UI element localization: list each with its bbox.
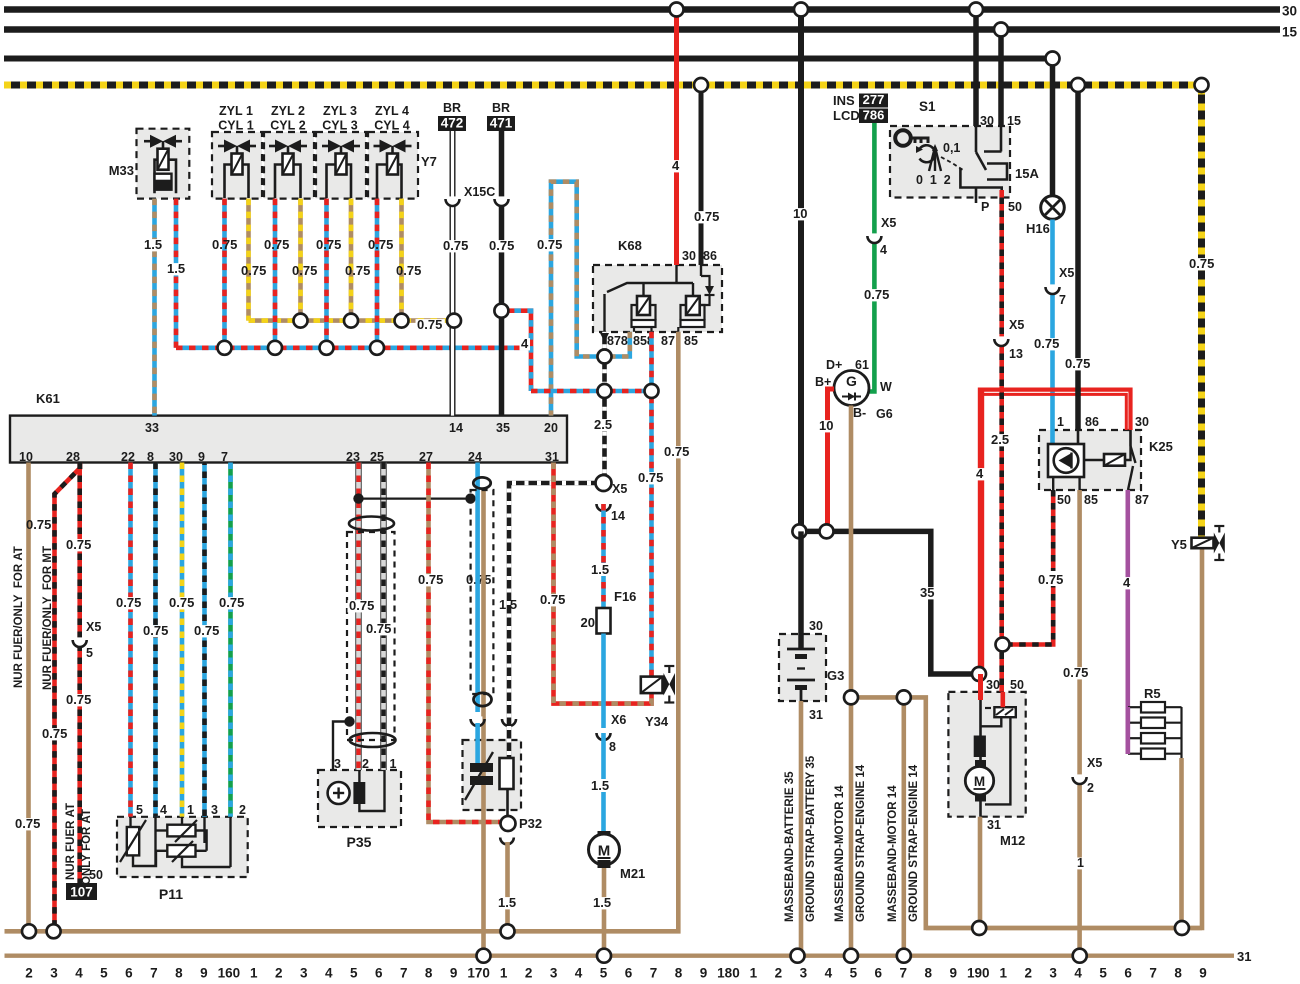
injector feed bus (blue/red) <box>176 345 531 350</box>
wire injector1 left (blue/red 0.75) <box>222 199 227 348</box>
wire blue 1.5 to M21 <box>601 733 606 834</box>
svg-text:6: 6 <box>375 966 383 980</box>
svg-text:6: 6 <box>625 966 633 980</box>
red feed line A to K25 pin30 <box>981 390 1131 430</box>
svg-text:0.75: 0.75 <box>42 726 67 741</box>
svg-text:87: 87 <box>1135 493 1149 507</box>
svg-text:BR: BR <box>492 101 510 115</box>
svg-text:0.75: 0.75 <box>1063 665 1088 680</box>
wire injector2 left (blue/red 0.75) <box>273 199 278 348</box>
injector Y7 cyl2 box <box>264 132 314 199</box>
svg-text:9: 9 <box>700 966 708 980</box>
bus line 30a yellow/black <box>4 85 1202 538</box>
label 0.75 pin31 <box>539 594 568 606</box>
svg-text:MASSEBAND-BATTERIE 35: MASSEBAND-BATTERIE 35 <box>784 771 796 922</box>
junction circle injector return bus on wire 472 <box>447 314 461 328</box>
svg-text:M33: M33 <box>109 163 134 178</box>
label 4 on red K68 wire <box>671 160 682 172</box>
connector X6 <box>599 730 609 739</box>
idle actuator M33 box <box>137 129 190 199</box>
svg-text:9: 9 <box>950 966 958 980</box>
upper ground bus (left) <box>5 929 679 933</box>
wire K25 pin87 (purple 4) to R5 <box>1126 490 1131 754</box>
label 0.75 on pin24 wire <box>465 574 494 586</box>
svg-text:0.75: 0.75 <box>143 623 168 638</box>
relay K25 box <box>1039 430 1141 490</box>
label 0.75 wire 471 <box>488 240 517 252</box>
svg-text:8: 8 <box>675 966 683 980</box>
svg-text:4: 4 <box>1074 966 1082 980</box>
svg-text:8: 8 <box>609 740 616 754</box>
wire K61 pin27 (brown/red 0.75) to P32 <box>429 463 501 823</box>
svg-text:3: 3 <box>550 966 558 980</box>
svg-text:G6: G6 <box>876 407 893 421</box>
wire K61 pin22 (blue/red) to P11 pin5 <box>128 463 133 817</box>
connector arcs below shield <box>473 716 483 725</box>
svg-text:33: 33 <box>145 421 159 435</box>
svg-text:LCD: LCD <box>833 108 860 123</box>
fuse F16 <box>597 608 611 634</box>
svg-text:0.75: 0.75 <box>15 816 40 831</box>
svg-text:X15C: X15C <box>464 185 495 199</box>
svg-text:0.75: 0.75 <box>540 592 565 607</box>
junction circle at M12 pin30 <box>972 667 986 681</box>
wire injector4 right (brown/yellow 0.75) <box>399 199 404 321</box>
connector X5-2 <box>1075 774 1085 783</box>
svg-text:7: 7 <box>1149 966 1157 980</box>
svg-text:1.5: 1.5 <box>591 778 609 793</box>
wire injector3 left (blue/red 0.75) <box>324 199 329 348</box>
injector return bus (brown/yellow) <box>249 318 455 323</box>
svg-text:1.5: 1.5 <box>167 261 185 276</box>
svg-text:7: 7 <box>650 966 658 980</box>
M33 symbol <box>150 135 163 148</box>
wire blue/red 1.5 to fuse F16 <box>601 504 606 608</box>
svg-text:0.75: 0.75 <box>1189 256 1214 271</box>
svg-text:0.75: 0.75 <box>368 237 393 252</box>
svg-text:3: 3 <box>300 966 308 980</box>
junction circles on top buses <box>670 3 684 17</box>
svg-text:2: 2 <box>239 803 246 817</box>
svg-text:0.75: 0.75 <box>316 237 341 252</box>
svg-text:R5: R5 <box>1144 686 1161 701</box>
wire K25 pin50 (red/black) joins starter wire <box>1010 490 1054 645</box>
ignition module internals <box>470 763 493 772</box>
svg-text:27: 27 <box>419 450 433 464</box>
svg-text:CYL 4: CYL 4 <box>374 119 409 133</box>
label 1.5 M33 left <box>143 239 165 251</box>
wire K61 pin31 (red/brown) to Y34 <box>554 463 652 704</box>
svg-text:Y34: Y34 <box>645 714 669 729</box>
wire K68 pin85 (brown) to ground bus <box>5 332 679 932</box>
shield ellipse top <box>349 517 394 531</box>
wire K68 pin87 (blue/red) down to Y34 <box>649 332 654 677</box>
svg-text:0.75: 0.75 <box>638 470 663 485</box>
Y7 injector 1 symbol <box>224 140 237 153</box>
wire 472 (white) to K61 pin 14 <box>450 131 456 416</box>
label 10 red <box>818 420 836 432</box>
svg-text:471: 471 <box>490 116 513 131</box>
ignition module box at P32 <box>463 740 522 810</box>
label 0.75 pin20 wire <box>536 239 565 251</box>
svg-text:30: 30 <box>169 450 183 464</box>
svg-text:G3: G3 <box>827 668 844 683</box>
svg-text:ZYL 2: ZYL 2 <box>271 104 305 118</box>
svg-text:H16: H16 <box>1026 221 1050 236</box>
label 35 <box>919 587 937 599</box>
label 1.5 <box>497 897 519 909</box>
junction circles upper left bus <box>22 924 36 938</box>
relay K68 box <box>593 265 722 332</box>
upper ground bus (right) <box>926 926 1202 930</box>
bus line 15 <box>4 26 1280 33</box>
svg-text:14: 14 <box>449 421 463 435</box>
svg-text:K68: K68 <box>618 238 642 253</box>
svg-text:0.75: 0.75 <box>212 237 237 252</box>
terminator box 107 <box>66 883 97 900</box>
svg-text:85: 85 <box>1084 493 1098 507</box>
svg-text:2: 2 <box>525 966 533 980</box>
svg-text:GROUND STRAP-ENGINE 14: GROUND STRAP-ENGINE 14 <box>908 764 920 922</box>
relay output bus (blue/red) <box>531 389 652 394</box>
svg-text:472: 472 <box>441 116 464 131</box>
label 0.75 <box>1062 667 1091 679</box>
svg-text:786: 786 <box>863 108 885 123</box>
S1 internals <box>895 130 911 146</box>
wire 471 (black 0.75) to K61 pin 35 <box>499 131 505 416</box>
wire K61 pin8 (blue/black) to P11 pin4 <box>153 463 158 817</box>
svg-text:2.5: 2.5 <box>594 417 612 432</box>
wire busX to H16 <box>1050 59 1056 197</box>
svg-text:K25: K25 <box>1149 439 1173 454</box>
svg-text:1: 1 <box>1057 415 1064 429</box>
battery G3 box <box>779 634 826 701</box>
svg-text:31: 31 <box>545 450 559 464</box>
svg-text:4: 4 <box>325 966 333 980</box>
svg-text:30: 30 <box>682 249 696 263</box>
svg-text:15A: 15A <box>1015 166 1039 181</box>
svg-text:878: 878 <box>607 334 628 348</box>
wire K68 pin858 (blue/brown 0.75) to K61 pin20 <box>551 182 630 416</box>
wire K61 pin28 branch AT (red/black) to ground bus <box>55 463 81 932</box>
wire black 10 from bus30 down <box>798 10 804 532</box>
svg-text:25: 25 <box>370 450 384 464</box>
svg-text:4: 4 <box>575 966 583 980</box>
wire K61 pin24 (blue) shielded to ignition module <box>475 463 480 713</box>
wire K61 pin30 (blue/yellow) to P11 pin1 <box>180 463 185 817</box>
svg-text:X5: X5 <box>881 216 896 230</box>
svg-text:CYL 3: CYL 3 <box>322 119 357 133</box>
wire black/white 1.5 from X5 node to ignition module <box>509 483 604 758</box>
svg-text:24: 24 <box>468 450 482 464</box>
svg-text:0.75: 0.75 <box>664 444 689 459</box>
wire black to battery <box>798 531 804 649</box>
svg-text:0.75: 0.75 <box>116 595 141 610</box>
svg-text:6: 6 <box>875 966 883 980</box>
starter M12 box <box>948 692 1025 817</box>
svg-text:0.75: 0.75 <box>366 621 391 636</box>
svg-text:30: 30 <box>1282 4 1297 19</box>
ignition switch S1 box <box>890 126 1010 198</box>
valve Y5 <box>1192 538 1214 549</box>
label 0.75 green <box>863 289 892 301</box>
svg-text:8: 8 <box>425 966 433 980</box>
svg-text:1: 1 <box>1077 856 1084 870</box>
svg-text:7: 7 <box>900 966 908 980</box>
svg-text:INS: INS <box>833 93 855 108</box>
svg-text:4: 4 <box>1123 575 1131 590</box>
svg-text:1: 1 <box>187 803 194 817</box>
label 0.75 pin27 <box>417 574 446 586</box>
svg-text:X6: X6 <box>611 713 626 727</box>
svg-text:1: 1 <box>250 966 258 980</box>
svg-text:0.75: 0.75 <box>66 537 91 552</box>
label 0.75 on K68 86 wire <box>693 211 722 223</box>
shield ellipse bottom <box>350 733 396 747</box>
svg-text:7: 7 <box>1059 293 1066 307</box>
injector Y7 cyl1 box <box>212 132 262 199</box>
svg-text:Y5: Y5 <box>1171 537 1187 552</box>
wire M21 brown 1.5 to ground bus <box>602 868 607 956</box>
wire yellow bus to K68 pin86 (black 0.75) <box>699 85 704 265</box>
svg-text:0.75: 0.75 <box>1038 572 1063 587</box>
svg-text:7: 7 <box>221 450 228 464</box>
purple feed bus of R5 <box>1126 707 1131 754</box>
label 0.75 <box>1064 358 1093 370</box>
svg-text:1: 1 <box>999 966 1007 980</box>
svg-text:X5: X5 <box>1087 756 1102 770</box>
label 0.75 <box>41 728 70 740</box>
injector Y7 cyl3 box <box>316 132 366 199</box>
svg-text:X5: X5 <box>86 620 101 634</box>
svg-text:10: 10 <box>793 206 807 221</box>
svg-text:4: 4 <box>521 336 529 351</box>
svg-text:0.75: 0.75 <box>219 595 244 610</box>
red feed line B <box>983 394 1126 430</box>
label 0.75 pin24 wire (left) <box>416 319 445 331</box>
svg-text:M12: M12 <box>1000 833 1025 848</box>
sensor P11 box <box>117 817 248 877</box>
svg-text:5: 5 <box>850 966 858 980</box>
svg-text:50: 50 <box>1057 493 1071 507</box>
labels 0.75 row for P11 wires <box>115 597 144 609</box>
wire blue 0.75 H16 to K25 pin1 <box>1050 220 1055 431</box>
wire bus15 to S1 pin15 <box>998 30 1004 127</box>
svg-text:P11: P11 <box>159 886 183 902</box>
svg-text:190: 190 <box>967 966 990 980</box>
svg-text:0.75: 0.75 <box>418 572 443 587</box>
svg-text:0 1 2: 0 1 2 <box>916 173 951 187</box>
svg-text:4: 4 <box>75 966 83 980</box>
svg-text:ZYL 1: ZYL 1 <box>219 104 253 118</box>
bus line X <box>4 56 1053 62</box>
junction circles K68 lower wires <box>598 350 612 364</box>
svg-text:B-: B- <box>853 406 866 420</box>
wire K61 pin7 (green/blue) to P11 pin2 <box>228 463 233 817</box>
valve Y34 <box>641 677 663 694</box>
wire B+ red 10 down <box>828 389 835 531</box>
svg-text:BR: BR <box>443 101 461 115</box>
label 0.75 on 87 wire <box>637 472 666 484</box>
control unit K61 box <box>10 416 567 463</box>
svg-text:86: 86 <box>1085 415 1099 429</box>
wire K61 pin25 (gray/black shielded) to P35 <box>381 463 386 771</box>
svg-text:0.75: 0.75 <box>264 237 289 252</box>
Y7 injector 4 symbol <box>380 140 393 153</box>
label 0.75 <box>1037 571 1067 586</box>
shield ferrule bottom <box>474 693 492 706</box>
svg-text:M21: M21 <box>620 866 645 881</box>
svg-text:2: 2 <box>275 966 283 980</box>
wire red to M12 pin30 <box>978 674 983 700</box>
wire brown to ground bus via engine strap <box>901 697 906 955</box>
wire G B- (brown) down <box>849 406 854 698</box>
wire injector4 left (blue/red 0.75) <box>375 199 380 348</box>
svg-text:20: 20 <box>544 421 558 435</box>
svg-text:MASSEBAND-MOTOR 14: MASSEBAND-MOTOR 14 <box>887 785 899 922</box>
svg-text:10: 10 <box>819 418 833 433</box>
P32 connector circle <box>501 816 516 831</box>
svg-text:86: 86 <box>703 249 717 263</box>
Y7 injector 3 symbol <box>328 140 341 153</box>
svg-text:10: 10 <box>19 450 33 464</box>
brown distribution: B- to engine ground straps <box>851 548 1202 928</box>
svg-text:30: 30 <box>1135 415 1149 429</box>
svg-text:7: 7 <box>150 966 158 980</box>
svg-text:5: 5 <box>350 966 358 980</box>
svg-text:1: 1 <box>750 966 758 980</box>
svg-text:0.75: 0.75 <box>864 287 889 302</box>
svg-text:9: 9 <box>450 966 458 980</box>
svg-text:23: 23 <box>346 450 360 464</box>
svg-text:X5: X5 <box>612 482 627 496</box>
svg-text:W: W <box>880 380 892 394</box>
wire G B- strap to ground bus <box>849 697 854 955</box>
svg-text:31: 31 <box>809 708 823 722</box>
wire injector3 right (brown/yellow 0.75) <box>349 199 354 321</box>
svg-text:S1: S1 <box>919 99 936 114</box>
svg-text:2: 2 <box>775 966 783 980</box>
svg-text:1.5: 1.5 <box>498 895 516 910</box>
svg-text:180: 180 <box>717 966 740 980</box>
svg-text:P35: P35 <box>347 834 372 850</box>
svg-text:277: 277 <box>863 92 885 107</box>
svg-text:D+: D+ <box>826 358 842 372</box>
junction circles main ground bus <box>477 949 491 963</box>
svg-text:F16: F16 <box>614 589 636 604</box>
svg-text:9: 9 <box>1199 966 1207 980</box>
label 1 <box>1076 858 1086 870</box>
svg-text:0.75: 0.75 <box>537 237 562 252</box>
svg-text:4: 4 <box>976 466 984 481</box>
svg-text:CYL 1: CYL 1 <box>218 119 253 133</box>
alternator G circle <box>834 371 869 406</box>
svg-text:35: 35 <box>920 585 934 600</box>
wire red/blue 4 from BR471 junction to relay bus <box>501 311 531 391</box>
lamp H16 <box>1041 196 1065 220</box>
connector X5-4 green <box>870 233 880 242</box>
Y7 injector 2 symbol <box>275 140 288 153</box>
wire K61 pin23 (gray/red shielded) to P35 <box>356 463 361 771</box>
sensor P35 box <box>318 770 401 827</box>
svg-text:0.75: 0.75 <box>169 595 194 610</box>
shield link line with solder dots <box>359 498 471 500</box>
K25 internals <box>1050 430 1055 444</box>
M12 internals <box>979 700 982 736</box>
junctions on injector feed bus <box>218 341 232 355</box>
svg-text:2: 2 <box>1087 781 1094 795</box>
svg-text:5: 5 <box>600 966 608 980</box>
svg-text:5: 5 <box>86 646 93 660</box>
label 2.5 <box>593 419 615 431</box>
wire bus30 to S1 pin30 <box>973 10 979 127</box>
main ground bus 31 <box>5 954 1235 958</box>
svg-text:28: 28 <box>66 450 80 464</box>
svg-text:0.75: 0.75 <box>694 209 719 224</box>
labels 0.75 on shielded wires 23/25 <box>348 600 377 612</box>
label 1.5 <box>589 779 615 792</box>
svg-text:P32: P32 <box>519 816 542 831</box>
svg-text:7: 7 <box>400 966 408 980</box>
battery G3 symbol <box>787 648 815 651</box>
junctions on injector return bus <box>294 314 308 328</box>
svg-text:8: 8 <box>175 966 183 980</box>
svg-text:4: 4 <box>160 803 167 817</box>
blue lead into ignition module <box>475 723 480 763</box>
svg-text:1.5: 1.5 <box>499 597 517 612</box>
svg-text:CYL 2: CYL 2 <box>270 119 305 133</box>
wire S1 pin50 (red/black 2.5) to M12 pin50 <box>999 198 1004 692</box>
svg-text:1.5: 1.5 <box>591 562 609 577</box>
svg-text:8: 8 <box>1174 966 1182 980</box>
connector X5-5 arc <box>75 637 85 646</box>
svg-text:2: 2 <box>1024 966 1032 980</box>
svg-text:107: 107 <box>70 885 93 900</box>
junction circle on starter wire <box>996 638 1010 652</box>
svg-text:5: 5 <box>136 803 143 817</box>
connector X5 node circle <box>596 475 612 491</box>
label 2.5 <box>990 434 1012 446</box>
svg-text:M: M <box>598 843 611 860</box>
svg-text:1: 1 <box>390 757 397 771</box>
svg-text:2: 2 <box>362 757 369 771</box>
svg-text:50: 50 <box>1010 678 1024 692</box>
label 4 <box>520 338 531 350</box>
svg-text:5: 5 <box>1099 966 1107 980</box>
svg-text:0,1: 0,1 <box>943 141 960 155</box>
svg-text:GROUND STRAP-BATTERY 35: GROUND STRAP-BATTERY 35 <box>805 755 817 922</box>
bus line 30 <box>4 6 1280 13</box>
svg-text:35: 35 <box>496 421 510 435</box>
svg-text:6: 6 <box>1124 966 1132 980</box>
svg-text:0.75: 0.75 <box>396 263 421 278</box>
svg-text:0.75: 0.75 <box>417 317 442 332</box>
svg-text:13: 13 <box>1009 347 1023 361</box>
junction circles on link <box>792 524 806 538</box>
black link wire 35 to starter <box>799 531 979 674</box>
svg-text:0.75: 0.75 <box>489 238 514 253</box>
P11 internals <box>127 827 139 855</box>
P35 internals <box>328 782 350 804</box>
svg-text:3: 3 <box>211 803 218 817</box>
wire injector1 right (brown/yellow 0.75) <box>246 199 251 321</box>
svg-text:3: 3 <box>334 757 341 771</box>
junction circle on BR471 wire <box>494 304 508 318</box>
wire P32 (brown 1.5) to ground bus <box>505 842 510 931</box>
labels 0.75 on MT wire <box>65 539 94 551</box>
svg-text:5: 5 <box>100 966 108 980</box>
svg-text:30: 30 <box>986 678 1000 692</box>
